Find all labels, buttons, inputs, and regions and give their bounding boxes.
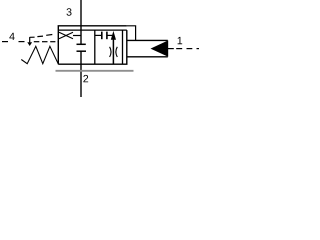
blocked seat upper T	[77, 43, 86, 45]
inner box right edge	[122, 30, 124, 64]
port 4 label	[9, 33, 14, 40]
port 1 flow arrow	[151, 40, 169, 56]
valve body partition line	[58, 29, 127, 31]
port 1 lead line	[168, 48, 174, 50]
orifice left arc	[110, 47, 111, 57]
port 4 dashed pilot line	[2, 41, 58, 43]
inner pilot box left stub	[95, 34, 102, 36]
inner box left edge	[94, 30, 96, 64]
orifice right arc	[116, 47, 117, 57]
main flow stem	[112, 39, 114, 64]
inner pilot box right stub	[107, 34, 112, 36]
port 1 label	[178, 37, 183, 44]
pilot relief seat X	[59, 32, 73, 38]
pilot arrow onto spring: stem	[29, 37, 31, 42]
port 2 line	[80, 51, 82, 97]
inner pilot box right bar	[106, 32, 108, 40]
main flow arrow up	[111, 31, 116, 40]
port 1 dashed line	[176, 48, 199, 50]
link X to port 3 line	[73, 35, 81, 37]
pilot wrap line to port 1	[127, 26, 136, 41]
valve body outer rectangle V1	[58, 26, 127, 64]
pilot arrow onto spring: head	[27, 42, 32, 46]
blocked seat lower T	[77, 50, 87, 52]
gray underline	[56, 70, 134, 72]
pilot branch dashed to X	[30, 35, 53, 38]
port 1 tube bottom	[127, 56, 168, 58]
port 3 label	[67, 8, 72, 16]
inner pilot box left bar	[101, 32, 103, 40]
port 2 label	[83, 75, 88, 82]
port 3 line	[80, 0, 82, 44]
spring	[21, 46, 58, 64]
port 1 tube top	[127, 39, 168, 41]
